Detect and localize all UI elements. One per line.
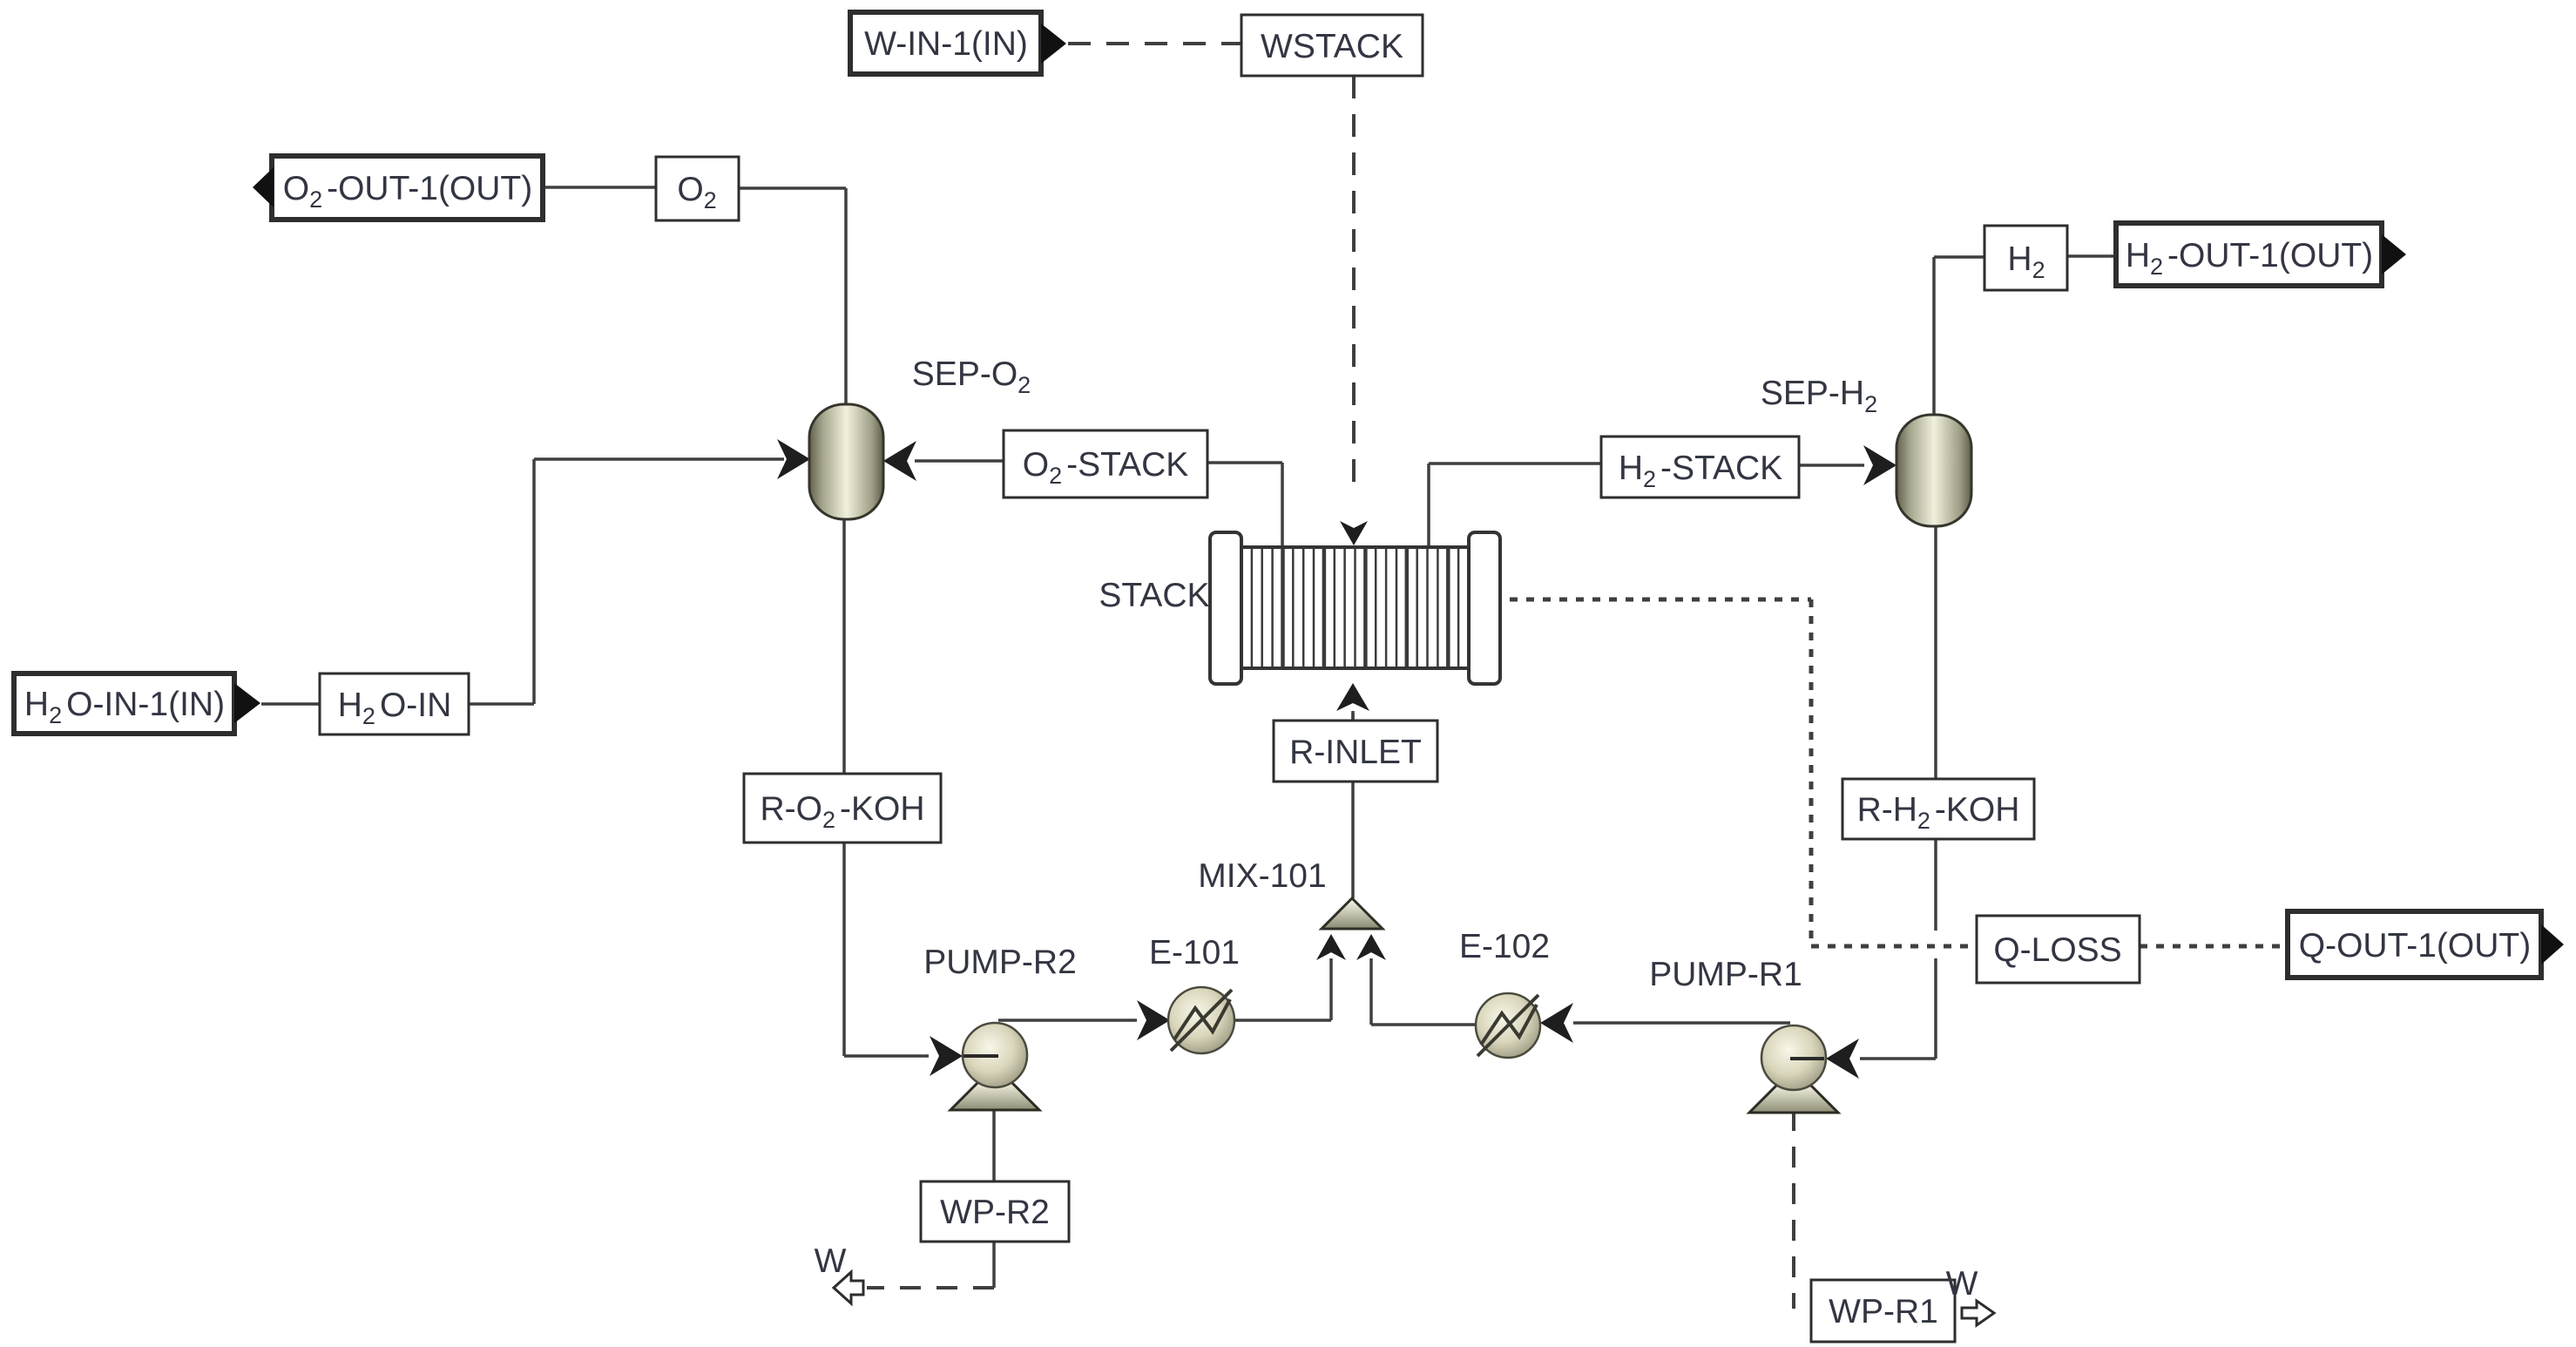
svg-text:R-O2-KOH: R-O2-KOH xyxy=(760,790,924,833)
svg-text:WP-R2: WP-R2 xyxy=(940,1194,1050,1231)
svg-text:SEP-H2: SEP-H2 xyxy=(1761,375,1877,417)
svg-text:PUMP-R2: PUMP-R2 xyxy=(923,944,1077,981)
svg-text:STACK: STACK xyxy=(1099,577,1209,614)
svg-text:E-102: E-102 xyxy=(1459,928,1550,965)
svg-text:W-IN-1(IN): W-IN-1(IN) xyxy=(864,25,1028,63)
svg-text:WP-R1: WP-R1 xyxy=(1829,1293,1938,1330)
svg-text:O2-STACK: O2-STACK xyxy=(1023,446,1189,489)
svg-text:R-INLET: R-INLET xyxy=(1289,734,1422,771)
svg-text:W: W xyxy=(815,1242,847,1280)
svg-text:MIX-101: MIX-101 xyxy=(1198,857,1326,895)
svg-text:H2O-IN: H2O-IN xyxy=(338,687,452,729)
svg-text:WSTACK: WSTACK xyxy=(1261,28,1403,65)
svg-text:W: W xyxy=(1946,1265,1978,1303)
svg-text:R-H2-KOH: R-H2-KOH xyxy=(1857,791,2020,834)
svg-text:SEP-O2: SEP-O2 xyxy=(912,355,1031,398)
svg-text:E-101: E-101 xyxy=(1149,934,1240,971)
svg-text:Q-LOSS: Q-LOSS xyxy=(1993,931,2121,969)
svg-text:Q-OUT-1(OUT): Q-OUT-1(OUT) xyxy=(2299,927,2531,965)
svg-text:PUMP-R1: PUMP-R1 xyxy=(1649,956,1802,993)
